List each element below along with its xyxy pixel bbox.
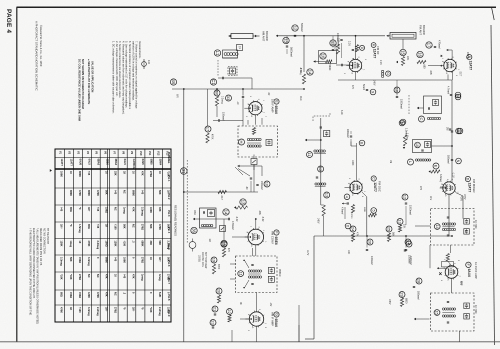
tube V5 6BA6 AM RF amplifier [246,99,264,117]
numbered measurement notes [112,41,142,115]
callout E resistor 3.3meg [429,163,443,183]
callout 10b [264,181,270,187]
capacitor 4.7mmf [447,86,461,98]
IF transformer T-A dashed box [238,126,278,157]
wire horizontal AM det row [184,191,258,193]
callout 28 capacitor [413,278,422,300]
FM dipole antenna bar [387,33,417,40]
slug arrows [243,260,249,289]
slug box [251,159,257,165]
wire dipole down [402,39,404,49]
wire osc cap down [344,207,346,219]
resistor 1 meg [299,68,306,84]
winding feed resistor [252,128,255,135]
diagonal det lead [238,169,250,177]
dashed corner link [313,112,330,121]
tube V2 12AT7 FM IF upper [441,56,459,73]
B-plus symbol [142,59,150,69]
vertical bus x452 [451,80,453,180]
callout C coil [419,116,425,122]
label AM ANT BOARD [262,31,270,42]
arrow into T8 [414,318,430,320]
callout 16b with resistor [314,53,333,71]
wire box2 to bus [432,145,453,147]
wire FM RF plate row [338,79,452,81]
callout D2 [457,128,463,134]
loopstick coil L1 [214,50,238,58]
label V7 6BA6 AM IF AMP [271,312,280,327]
capacitor 500mmf right [449,129,451,130]
FM osc coil box 2 [413,140,432,153]
arrow into resistor [234,206,236,208]
callout 20 [216,288,222,294]
callout 27 capacitor 100mmf [405,236,412,265]
callout A2 [455,94,461,100]
wires IF1 [230,248,257,312]
capacitor column 2 [316,176,318,178]
capacitor C5 [242,95,244,97]
callout 11b capacitor [330,36,340,51]
callout 47mmf capacitor [341,194,350,215]
callout 15c resistor 22K [396,49,409,65]
cathode resistor 4700 [350,205,355,220]
wire T7 left [415,225,431,227]
FM coil winding [427,117,429,119]
callout 9c 1 meg [400,119,408,149]
trimmer A1 box [228,67,237,76]
455KC IF transformer dashed box [236,256,278,293]
wire x299 vertical [298,305,300,342]
10.7MC IF transformer 2 dashed box [431,293,475,331]
V8 grid arrow [437,267,445,269]
wire AM top horizontal [172,88,304,90]
T7 trimmer B [464,229,470,235]
callout G coil [381,70,390,77]
callout in T7 [434,224,440,230]
page border top rule [17,6,497,8]
callout 31 on bus [181,168,188,175]
callout 29 resistor 6800 [388,292,408,307]
credit note: A PHOTOFACT STANDARD NOTATION SCHEMATIC [35,21,43,91]
alignment open circle [189,239,196,252]
capacitor 180mmf top-left [346,129,365,146]
wire T8 down [459,331,461,342]
wire V4 grid stub [440,186,446,188]
capacitor det [250,177,252,179]
wire grid caps row [208,89,244,126]
T7 trimmer A [464,219,470,225]
callout 12 with capacitor 500mmf [292,23,303,36]
callout 6 bottom-left [345,223,351,229]
callout 14b [307,69,313,75]
V2 plate hook wire [446,49,452,59]
AM IF coil row 2 [315,183,326,187]
wire det to bus [250,181,252,192]
trimmer B [268,276,274,282]
AM loop antenna bar [229,34,260,39]
wire FM osc grid [351,142,357,181]
wire B-plus bus horizontal [314,235,452,237]
label V3 12AT7 FM OSC [371,176,382,192]
tie point TP square [237,45,243,51]
callout 8 grid resistor [348,41,365,52]
callout 14 [223,209,229,215]
callout 36 [191,227,197,233]
dashed link [408,95,410,114]
wire V1 grid to antenna bus [355,35,357,59]
callout 10 capacitor 1000mmf [394,80,403,109]
wire AM antenna bus [276,35,385,37]
wire B-plus bus bottom jog [305,338,314,340]
T8 trimmer B [464,314,470,320]
callout H [239,139,245,145]
resistor horizontal 13 [236,206,248,209]
wire mixer plate down [447,74,449,80]
callout 13 [240,199,246,205]
callout L2 [408,159,414,165]
trimmer A [268,268,274,274]
arrow AM det [238,165,263,167]
callout 12c capacitor 1000mmf [402,194,412,225]
box around RF coil [319,51,337,64]
trimmer box column [324,131,330,137]
label FM ANT BOARD [419,25,427,35]
tube V4 12AT7 FM mixer [440,179,458,196]
capacitor 100mmf FM RF input [336,33,343,58]
callout 19 [211,257,217,263]
callout 11 in transformer [238,271,244,277]
tube V3 12AT7 FM oscillator [347,178,365,195]
capacitor on bus 2 [447,155,462,164]
capacitor 23 [212,326,214,328]
callout 23 [210,320,216,326]
resistor 22 vertical [228,315,231,322]
tube V7 6BA6 AM IF amplifier [247,309,266,328]
label V8 6AU6 FM IF AMP [466,262,477,279]
trimmer B box [266,140,272,146]
callout 22 [227,309,233,315]
callout 46 [170,79,176,85]
T8 cap bottom [447,321,449,323]
callout 21 [212,306,218,312]
wire AM IF output vertical [320,118,322,205]
capacitor 21 [214,313,216,315]
table resistance values [60,171,170,316]
resistor column 145V [317,205,326,236]
FM coil winding 2 [415,159,417,161]
slug adjust box 2 [220,226,226,232]
tube resistance readings table grid [55,149,171,322]
T7 windings [442,223,455,231]
callout L in T8 [434,310,440,316]
tube input arrows [244,64,446,320]
resistor 20 vertical [217,295,220,303]
callout 26 capacitor 100mmf [366,236,373,265]
capacitor C7 100mmf [213,112,226,122]
V2 grid arrow [428,65,444,67]
AM IF coil row 1 [314,150,326,154]
T8 trimmer A [464,303,470,309]
label 1500 ohm AM OSC COIL [198,252,207,269]
callout 15 hatched [221,240,227,246]
callout 11d [307,152,313,158]
wire RF grid [216,89,218,93]
capacitor C2 [218,77,228,79]
page bottom edge [0,341,500,343]
capacitor C FM RF grid [336,64,351,66]
T7 cap top [447,216,449,218]
page right edge [491,25,495,345]
callout 12d [318,166,324,172]
grid shield box [442,262,454,267]
table pointer arrow [50,169,52,172]
label V1 12AT7 FM RF [371,43,380,59]
callout 18 osc grid [221,241,227,247]
node AVC [183,88,185,90]
resistor 3.3meg [215,96,218,106]
callout 13c resistor 10K [397,219,406,233]
tube V6 6BE6 AM converter [246,226,266,246]
oscillator coil assembly box [200,208,217,228]
tube V8 6AU6 FM IF amplifier [443,263,461,281]
capacitor 200mmf [256,181,263,190]
T8 cap top [447,300,449,302]
diagonal lead [235,167,243,175]
node at x304 [303,35,305,37]
resistor 47K vertical [222,248,225,257]
callout 16c resistor 680 [417,51,426,69]
wire V1 plate to bus [355,72,357,80]
10.7MC IF transformer 1 dashed box [431,209,475,246]
coupling capacitor top [251,263,253,265]
AM osc section: arrow to oscillator [193,218,228,220]
wire into T7 from mixer [456,193,464,219]
wire left bus lower taps [171,89,184,192]
label V5 6BA6 1st IF AMP [271,99,280,114]
tube V1 12AT7 FM RF amplifier [347,56,365,73]
note: DC COIL RESISTANCE VALUES [78,59,85,121]
wire AM AVC bus vertical [183,89,185,342]
callout 33 [226,95,232,101]
transformer coil windings [247,138,261,147]
wires transformer to tube [248,115,262,176]
wire antenna to RF grid [228,77,252,79]
callout 25 resistor 56K [386,226,395,242]
table header column TUBE / Pin labels [167,152,170,317]
transformer windings [248,270,261,278]
callout 17c capacitor 470mmf [426,40,441,49]
callout 17 [205,126,211,132]
wire B-plus bus vertical [313,236,315,339]
scattered pin labels [245,58,462,332]
junction dots [183,88,453,237]
wires converter [224,218,257,260]
wire 47K to tube V6 [223,219,225,241]
callout K capacitor [404,241,412,264]
wire V2 cathode down [452,71,454,81]
page border left rule [16,7,18,342]
resistor 470K vertical [206,133,209,143]
scattered value labels [193,60,466,307]
callout 13b capacitor [283,36,293,58]
wire T1 bottom to det row [253,165,255,193]
label V6 6BE6 AM CONV [271,230,280,245]
wire osc diagonal to divider [362,192,367,236]
T7 cap bottom [447,234,449,236]
callout 24 resistor 47K [350,226,359,242]
callout 5 resistor 680K [363,207,377,217]
coupling capacitor bottom [251,282,253,284]
FM RF coil box [417,96,442,114]
resistor 6800 vertical [212,264,215,274]
wire mixer plate down [462,219,464,226]
wires AM IF [219,287,299,342]
resistor 3meg horizontal [218,190,227,193]
plate feed resistor [446,245,451,266]
x mark [441,55,443,57]
resistor 1500 FM RF [334,44,340,54]
callout E2 3.3meg grid [435,167,437,169]
capacitor 470mmf [228,218,234,230]
callout 13d [324,192,330,198]
label V2 12AT7 [466,52,473,70]
callout C1 [210,79,216,85]
dashed AVC line [186,160,188,243]
wires 6AU6 [430,245,452,293]
T8 windings [442,308,455,317]
callout 16 grid resistor [214,90,220,96]
arrow wire into coil [305,139,321,141]
capacitor on column [320,126,322,128]
label V4 12AT7 FM MIXER [465,176,476,192]
X marking [439,272,441,275]
dashed coupling line [217,60,219,76]
footnote: readings conditions [29,228,50,324]
wire down from antenna bus [303,36,305,72]
capacitor on bus 1 [446,127,462,134]
page border right corner [492,7,495,20]
capacitor 5mmf [362,84,376,95]
note: SEE PARTS LIST FOR ALTERNATE [87,59,94,105]
table tube designators row [58,151,170,169]
callout B2 [399,120,405,126]
